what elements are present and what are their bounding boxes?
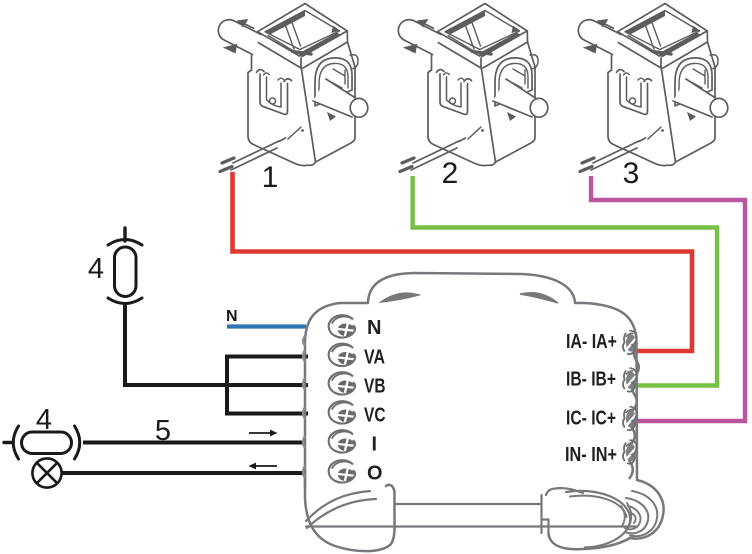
screw VA bbox=[329, 344, 356, 366]
scroll outer bbox=[630, 480, 664, 539]
right foot top edge bbox=[546, 488, 583, 495]
CT 1 bbox=[218, 4, 367, 172]
arrow right (on I wire) bbox=[249, 430, 278, 437]
right foot inner ellipse bbox=[566, 491, 630, 548]
screw O bbox=[329, 460, 356, 482]
screw I bbox=[329, 430, 356, 452]
arrow left (on O wire) bbox=[249, 463, 278, 470]
left foot bbox=[305, 470, 395, 551]
CT 3 bbox=[578, 4, 727, 172]
svg-text:IA- IA+: IA- IA+ bbox=[566, 331, 617, 353]
horizontal fuse 4 bbox=[4, 426, 80, 459]
leaf mark right bbox=[520, 293, 558, 303]
wire fuse to I terminal bbox=[83, 441, 306, 445]
scroll arcs bbox=[625, 498, 648, 533]
top hump bbox=[368, 273, 575, 302]
DIN rail bottom bbox=[306, 525, 636, 527]
left foot inner arcs bbox=[306, 491, 370, 521]
fuse body bbox=[22, 432, 72, 454]
right screw IB bbox=[623, 368, 637, 392]
wire to VA bbox=[225, 355, 308, 359]
screw VB bbox=[329, 372, 356, 394]
purple wire CT3 -> IC bbox=[591, 176, 745, 421]
vertical fuse 4 bbox=[108, 228, 142, 304]
svg-text:5: 5 bbox=[155, 415, 171, 447]
wire to VC bbox=[225, 412, 308, 416]
left clip arc bbox=[13, 426, 18, 459]
fuse body bbox=[115, 247, 137, 297]
wire lamp to O terminal bbox=[62, 471, 306, 475]
svg-text:IC- IC+: IC- IC+ bbox=[566, 408, 616, 430]
svg-text:I: I bbox=[372, 434, 378, 456]
top clip arc bbox=[108, 240, 142, 246]
red wire CT1 -> IA bbox=[233, 172, 693, 351]
bottom clip arc bbox=[108, 298, 142, 304]
DIN rail top bbox=[396, 503, 540, 505]
blue N wire bbox=[227, 324, 306, 328]
leaf mark left bbox=[381, 293, 419, 302]
rail clip verticals bbox=[540, 495, 542, 533]
right foot bbox=[549, 534, 631, 550]
right screw IC bbox=[623, 407, 637, 431]
svg-text:IN- IN+: IN- IN+ bbox=[565, 444, 617, 466]
wire to VB bbox=[225, 383, 308, 387]
body outline top + left bbox=[305, 303, 368, 487]
svg-text:1: 1 bbox=[262, 161, 279, 194]
svg-text:VC: VC bbox=[364, 405, 386, 427]
bus vertical bbox=[225, 355, 229, 416]
left edge scallop bumps bbox=[303, 336, 305, 478]
svg-text:N: N bbox=[226, 308, 238, 325]
wire fuse4 to bus bbox=[125, 303, 229, 385]
svg-text:O: O bbox=[367, 463, 383, 485]
screw VC bbox=[329, 401, 356, 423]
CT 2 bbox=[398, 4, 547, 172]
right clip arc bbox=[75, 426, 80, 459]
svg-text:2: 2 bbox=[442, 157, 459, 190]
right screw IN bbox=[623, 440, 637, 464]
svg-text:VA: VA bbox=[364, 347, 385, 369]
right edge wavy line bbox=[628, 342, 639, 479]
lead top bbox=[123, 228, 126, 241]
svg-text:VB: VB bbox=[364, 376, 386, 398]
scroll chevrons bbox=[627, 503, 631, 528]
svg-text:IB- IB+: IB- IB+ bbox=[566, 369, 616, 391]
lead left bbox=[4, 441, 13, 444]
svg-text:4: 4 bbox=[36, 404, 52, 436]
lamp symbol bbox=[32, 458, 61, 487]
right screw IA bbox=[623, 331, 637, 355]
svg-text:N: N bbox=[367, 317, 382, 339]
body outline right bbox=[575, 303, 637, 479]
svg-text:4: 4 bbox=[88, 253, 104, 285]
svg-text:3: 3 bbox=[623, 157, 640, 190]
green wire CT2 -> IB bbox=[413, 176, 717, 386]
screw N bbox=[329, 315, 356, 337]
